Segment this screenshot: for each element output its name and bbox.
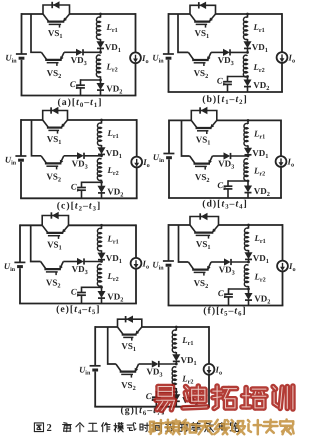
inductor Lr1 circuit (d) <box>244 123 248 146</box>
wire: circuit (a) diode bump <box>43 5 70 14</box>
diode VD3 circuit (c) <box>77 153 83 159</box>
wire: circuit (b) cap top lead <box>227 76 229 82</box>
wire: circuit (a) branch top stub <box>100 14 102 18</box>
capacitor Cr circuit (d) <box>224 185 233 187</box>
transistor VS2 circuit (a) <box>41 52 46 60</box>
wire: circuit (d) left rail upper <box>168 120 170 154</box>
battery Uin circuit (b) <box>163 53 174 55</box>
diode VD3 circuit (a) <box>76 49 82 55</box>
inductor Lr1 circuit (a) <box>96 17 100 40</box>
wire: circuit (g) left rail lower <box>94 372 96 407</box>
wire: circuit (g) junction to VD2 <box>175 392 177 395</box>
wire: circuit (a) right rail upper <box>135 13 137 53</box>
wire: circuit (f) Lr2 to cap junction <box>248 286 250 289</box>
wire: circuit (c) cap junction horizontal <box>82 181 102 183</box>
wire: circuit (b) left rail upper <box>168 13 170 53</box>
wire: circuit (b) cap bottom lead <box>227 84 229 92</box>
transistor VS1 circuit (d) <box>191 120 197 128</box>
wire: circuit (a) VD3 to resonant branch <box>83 51 101 53</box>
current source Io circuit (g) <box>204 364 215 375</box>
inductor Lr2 circuit (b) <box>243 55 247 77</box>
capacitor Cr circuit (f) <box>224 293 233 295</box>
wire: circuit (b) diode bump <box>190 5 216 14</box>
wire: circuit (g) cap top lead <box>155 391 157 397</box>
wire: circuit (c) junction to VD2 <box>101 182 103 186</box>
wire: circuit (c) diode bump <box>43 111 68 121</box>
current source Io circuit (d) <box>276 156 287 167</box>
node: circuit (f) junction VD1/Lr2 <box>247 261 250 264</box>
node: circuit (c) junction VD1/Lr2 <box>100 154 103 157</box>
inductor Lr2 circuit (d) <box>244 159 248 181</box>
wire: circuit (d) branch top stub <box>247 120 249 124</box>
capacitor Cr circuit (c) <box>77 187 86 189</box>
wire: circuit (g) top rail left <box>95 326 117 328</box>
node: circuit (c) branch top <box>100 119 103 122</box>
diode VD2 circuit (b) <box>244 80 251 86</box>
node: circuit (e) junction Cr/VD2 <box>100 286 103 289</box>
inductor Lr2 circuit (a) <box>96 55 100 77</box>
wire: circuit (g) Lr1 to VD1 <box>175 352 177 355</box>
wire: circuit (b) top rail left <box>169 13 191 15</box>
transistor VS1 circuit (c) <box>43 120 49 128</box>
diode VD2 circuit (a) <box>97 83 104 89</box>
wire: circuit (e) VS2 emitter to VD3 <box>63 261 77 263</box>
wire: circuit (d) VS2 emitter to VD3 <box>212 155 223 157</box>
wire: circuit (a) junction to VD2 <box>100 80 102 83</box>
wire: circuit (e) Lr2 to cap junction <box>101 286 103 288</box>
current source Io circuit (e) <box>131 258 142 269</box>
wire: circuit (c) VD1 to junction <box>101 154 103 155</box>
wire: circuit (d) inner branch to VS2 <box>182 120 190 156</box>
wire: circuit (c) cap bottom lead <box>81 190 83 198</box>
wire: circuit (g) VD2 to bottom rail <box>175 402 177 407</box>
wire: circuit (g) diode bump <box>118 319 142 327</box>
node: circuit (b) branch top <box>246 13 249 16</box>
node: circuit (g) branch top <box>175 326 178 329</box>
current source Io circuit (c) <box>131 157 142 168</box>
wire: circuit (g) cap junction horizontal <box>156 391 176 393</box>
diode VD1 circuit (g) <box>173 355 180 361</box>
battery Uin circuit (f) <box>163 260 174 262</box>
wire: circuit (b) inner branch to VS2 <box>178 14 188 52</box>
wire: circuit (e) diode bump <box>42 216 68 226</box>
wire: circuit (d) diode bump <box>191 111 217 121</box>
diode antiparallel with VS1 circuit (f) <box>201 213 207 219</box>
wire: circuit (g) VS2 emitter to VD3 <box>139 363 152 365</box>
node: circuit (d) branch top <box>247 119 250 122</box>
node: circuit (b) junction Cr/VD2 <box>246 75 249 78</box>
wire: circuit (c) right rail upper <box>136 119 138 157</box>
wire: circuit (b) branch top stub <box>247 14 249 18</box>
wire: circuit (a) VD1 to junction <box>100 48 102 52</box>
wire: circuit (c) VD3 to resonant branch <box>84 155 102 157</box>
wire: circuit (a) bottom rail <box>21 95 137 97</box>
wire: circuit (e) right rail upper <box>135 224 137 258</box>
wire: circuit (b) VD2 to bottom rail <box>247 87 249 92</box>
watermark: gold slogan characters <box>149 420 163 434</box>
transistor VS1 circuit (f) <box>190 225 196 233</box>
wire: circuit (a) cap bottom lead <box>80 88 82 96</box>
wire: circuit (b) VD3 to resonant branch <box>230 51 248 53</box>
wire: circuit (d) Lr1 to VD1 <box>247 145 249 148</box>
wire: circuit (c) Lr2 to cap junction <box>101 180 103 183</box>
wire: circuit (e) branch top stub <box>101 225 103 229</box>
wire: circuit (b) top rail right <box>216 13 283 15</box>
wire: circuit (c) branch top stub <box>101 120 103 124</box>
diode VD1 circuit (c) <box>98 148 105 154</box>
diode antiparallel with VS1 circuit (a) <box>54 2 60 8</box>
wire: circuit (f) branch top stub <box>248 225 250 229</box>
wire: circuit (g) top rail right <box>142 326 209 328</box>
wire: circuit (e) bottom rail <box>19 303 137 305</box>
wire: circuit (c) inner branch to VS2 <box>32 120 42 156</box>
wire: circuit (e) inner branch to VS2 <box>31 225 41 261</box>
wire: circuit (g) bottom rail <box>94 406 210 408</box>
wire: circuit (f) left rail upper <box>168 224 170 260</box>
svg-text:2: 2 <box>47 423 52 434</box>
node: circuit (a) branch top <box>99 13 102 16</box>
diode VD2 circuit (d) <box>245 186 252 192</box>
wire: circuit (f) junction to VD2 <box>248 289 250 293</box>
wire: circuit (d) VD3 to resonant branch <box>231 155 249 157</box>
wire: circuit (b) right rail lower <box>281 63 283 92</box>
wire: circuit (f) top rail right <box>219 224 283 226</box>
wire: circuit (f) cap top lead <box>228 288 230 294</box>
diode VD1 circuit (f) <box>245 253 252 259</box>
wire: circuit (f) right rail upper <box>282 224 284 261</box>
wire: circuit (g) VD1 to junction <box>175 361 177 364</box>
node: circuit (e) branch top <box>100 224 103 227</box>
transistor VS2 circuit (b) <box>188 52 193 60</box>
wire: circuit (a) cap top lead <box>80 79 82 85</box>
wire: circuit (b) right rail upper <box>281 13 283 52</box>
inductor Lr1 circuit (e) <box>97 228 101 251</box>
diode VD2 circuit (g) <box>173 395 180 401</box>
inductor Lr1 circuit (c) <box>97 123 101 145</box>
wire: circuit (g) inner branch to VS2 <box>108 327 116 364</box>
inductor Lr1 circuit (g) <box>172 330 176 353</box>
node: circuit (a) junction VD1/Lr2 <box>99 51 102 54</box>
inductor Lr2 circuit (e) <box>97 264 101 286</box>
wire: circuit (a) VD2 to bottom rail <box>100 91 102 96</box>
wire: circuit (d) bottom rail <box>168 197 282 199</box>
node: circuit (a) junction Cr/VD2 <box>99 79 102 82</box>
wire: circuit (c) cap top lead <box>81 182 83 188</box>
node: circuit (f) branch top <box>247 224 250 227</box>
wire: circuit (b) Lr1 to VD1 <box>247 39 249 42</box>
transistor VS1 circuit (a) <box>43 14 49 22</box>
diode VD2 circuit (e) <box>98 291 105 297</box>
wire: circuit (c) right rail lower <box>136 167 138 198</box>
inductor Lr1 circuit (f) <box>244 228 248 251</box>
wire: circuit (a) inner branch to VS2 <box>31 14 41 52</box>
current source Io circuit (f) <box>277 261 288 272</box>
wire: circuit (e) cap bottom lead <box>81 295 83 303</box>
wire: circuit (f) bottom rail <box>168 305 284 307</box>
wire: circuit (d) junction to VD2 <box>247 181 249 186</box>
battery Uin circuit (g) <box>90 365 101 367</box>
wire: circuit (e) Lr1 to VD1 <box>101 250 103 253</box>
wire: circuit (d) Lr2 to cap junction <box>247 180 249 181</box>
diode VD2 circuit (c) <box>98 186 105 192</box>
wire: circuit (e) VD3 to resonant branch <box>84 261 102 263</box>
diode VD2 circuit (f) <box>245 293 252 299</box>
wire: circuit (f) diode bump <box>190 217 219 226</box>
transistor VS1 circuit (e) <box>42 225 48 233</box>
wire: circuit (g) right rail upper <box>208 326 210 364</box>
wire: circuit (a) left rail lower <box>21 60 23 96</box>
inductor Lr2 circuit (c) <box>97 159 101 181</box>
wire: circuit (g) cap bottom lead <box>155 400 157 407</box>
wire: circuit (e) VD1 to junction <box>101 260 103 262</box>
diode VD1 circuit (e) <box>98 253 105 259</box>
inductor Lr2 circuit (f) <box>244 265 248 287</box>
diode VD1 circuit (a) <box>97 42 104 48</box>
wire: circuit (d) right rail lower <box>280 167 282 198</box>
wire: circuit (f) inner branch to VS2 <box>179 225 189 262</box>
diode VD3 circuit (e) <box>77 258 83 264</box>
wire: circuit (d) top rail right <box>217 119 281 121</box>
diode VD1 circuit (b) <box>244 42 251 48</box>
wire: circuit (a) cap junction horizontal <box>81 79 101 81</box>
battery Uin circuit (a) <box>16 53 27 55</box>
wire: circuit (a) top rail right <box>70 13 136 15</box>
wire: circuit (c) top rail right <box>68 119 137 121</box>
wire: circuit (a) top rail left <box>22 13 44 15</box>
wire: circuit (b) bottom rail <box>168 91 283 93</box>
node: circuit (d) junction Cr/VD2 <box>247 180 250 183</box>
transistor VS2 circuit (d) <box>190 156 195 164</box>
battery Uin circuit (c) <box>15 155 26 157</box>
wire: circuit (e) cap junction horizontal <box>82 286 102 288</box>
wire: circuit (g) left rail upper <box>94 326 96 365</box>
diode antiparallel with VS1 circuit (d) <box>201 107 207 113</box>
wire: circuit (f) VD3 to resonant branch <box>231 261 249 263</box>
transistor VS2 circuit (f) <box>188 262 193 270</box>
wire: circuit (g) Lr2 to cap junction <box>175 388 177 392</box>
wire: circuit (c) VS2 emitter to VD3 <box>64 155 77 157</box>
wire: circuit (c) VD2 to bottom rail <box>101 193 103 198</box>
wire: circuit (b) VS2 emitter to VD3 <box>211 51 223 53</box>
node: circuit (c) junction Cr/VD2 <box>100 181 103 184</box>
wire: circuit (f) VD2 to bottom rail <box>248 301 250 306</box>
wire: circuit (f) top rail left <box>169 224 191 226</box>
diode antiparallel with VS1 circuit (c) <box>52 107 58 113</box>
wire: circuit (e) left rail lower <box>19 268 21 303</box>
wire: circuit (e) junction to VD2 <box>101 287 103 291</box>
wire: circuit (c) bottom rail <box>20 197 138 199</box>
wire: circuit (b) junction to VD2 <box>247 77 249 80</box>
wire: circuit (f) VS2 emitter to VD3 <box>211 261 224 263</box>
wire: circuit (d) VD1 to junction <box>247 155 249 156</box>
diode VD3 circuit (g) <box>152 361 158 367</box>
wire: circuit (c) left rail upper <box>20 119 22 155</box>
transistor VS1 circuit (b) <box>190 14 196 22</box>
wire: circuit (c) Lr1 to VD1 <box>101 145 103 148</box>
transistor VS2 circuit (c) <box>41 156 46 164</box>
node: circuit (b) junction VD1/Lr2 <box>246 51 249 54</box>
wire: circuit (d) cap top lead <box>227 180 229 186</box>
wire: circuit (a) right rail lower <box>135 63 137 96</box>
node: circuit (g) junction VD1/Lr2 <box>175 363 178 366</box>
wire: circuit (c) top rail left <box>21 119 43 121</box>
caption: figure 2 title <box>34 423 43 432</box>
transistor VS1 circuit (g) <box>118 327 124 335</box>
capacitor Cr circuit (g) <box>152 396 161 398</box>
wire: circuit (f) cap bottom lead <box>228 297 230 306</box>
diode VD3 circuit (b) <box>223 49 229 55</box>
node: circuit (e) junction VD1/Lr2 <box>100 260 103 263</box>
wire: circuit (g) VD3 to resonant branch <box>159 363 177 365</box>
wire: circuit (e) VD2 to bottom rail <box>101 299 103 304</box>
battery Uin circuit (e) <box>14 261 25 263</box>
node: circuit (f) junction Cr/VD2 <box>247 288 250 291</box>
wire: circuit (d) right rail upper <box>280 120 282 157</box>
wire: circuit (a) Lr1 to VD1 <box>100 39 102 42</box>
inductor Lr2 circuit (g) <box>172 367 176 389</box>
inductor Lr1 circuit (b) <box>243 17 247 39</box>
diode antiparallel with VS1 circuit (g) <box>127 316 133 322</box>
wire: circuit (b) VD1 to junction <box>247 48 249 52</box>
wire: circuit (g) right rail lower <box>208 375 210 407</box>
wire: circuit (d) top rail left <box>169 119 191 121</box>
wire: circuit (e) cap top lead <box>81 287 83 293</box>
wire: circuit (e) top rail right <box>69 224 137 226</box>
wire: circuit (d) cap bottom lead <box>227 189 229 198</box>
diode VD3 circuit (f) <box>224 259 230 265</box>
wire: circuit (a) VS2 emitter to VD3 <box>64 51 76 53</box>
diode VD3 circuit (d) <box>224 153 230 159</box>
wire: circuit (f) right rail lower <box>282 271 284 305</box>
wire: circuit (b) Lr2 to cap junction <box>247 75 249 77</box>
wire: circuit (d) VD2 to bottom rail <box>247 193 249 198</box>
wire: circuit (b) left rail lower <box>168 60 170 92</box>
wire: circuit (f) VD1 to junction <box>248 259 250 262</box>
wire: circuit (b) cap junction horizontal <box>228 76 248 78</box>
wire: circuit (e) left rail upper <box>19 224 21 262</box>
wire: circuit (c) left rail lower <box>20 162 22 199</box>
capacitor Cr circuit (b) <box>223 81 232 83</box>
node: circuit (g) junction Cr/VD2 <box>175 391 178 394</box>
transistor VS2 circuit (e) <box>41 262 46 270</box>
wire: circuit (f) left rail lower <box>168 267 170 306</box>
watermark: red logo characters <box>156 387 174 411</box>
diode VD1 circuit (d) <box>245 148 252 154</box>
wire: circuit (f) Lr1 to VD1 <box>248 250 250 253</box>
wire: circuit (d) cap junction horizontal <box>228 180 248 182</box>
wire: circuit (f) cap junction horizontal <box>229 288 249 290</box>
diode antiparallel with VS1 circuit (b) <box>200 2 206 8</box>
current source Io circuit (b) <box>277 52 288 63</box>
diode antiparallel with VS1 circuit (e) <box>53 212 59 218</box>
wire: circuit (a) Lr2 to cap junction <box>100 76 102 80</box>
wire: circuit (d) left rail lower <box>168 159 170 198</box>
current source Io circuit (a) <box>130 52 141 63</box>
wire: circuit (a) left rail upper <box>21 13 23 53</box>
wire: circuit (e) right rail lower <box>135 269 137 304</box>
capacitor Cr circuit (a) <box>76 84 85 86</box>
battery Uin circuit (d) <box>163 153 174 155</box>
wire: circuit (e) top rail left <box>20 224 42 226</box>
transistor VS2 circuit (g) <box>116 364 121 372</box>
capacitor Cr circuit (e) <box>77 292 86 294</box>
node: circuit (d) junction VD1/Lr2 <box>247 155 250 158</box>
wire: circuit (g) branch top stub <box>175 327 177 331</box>
